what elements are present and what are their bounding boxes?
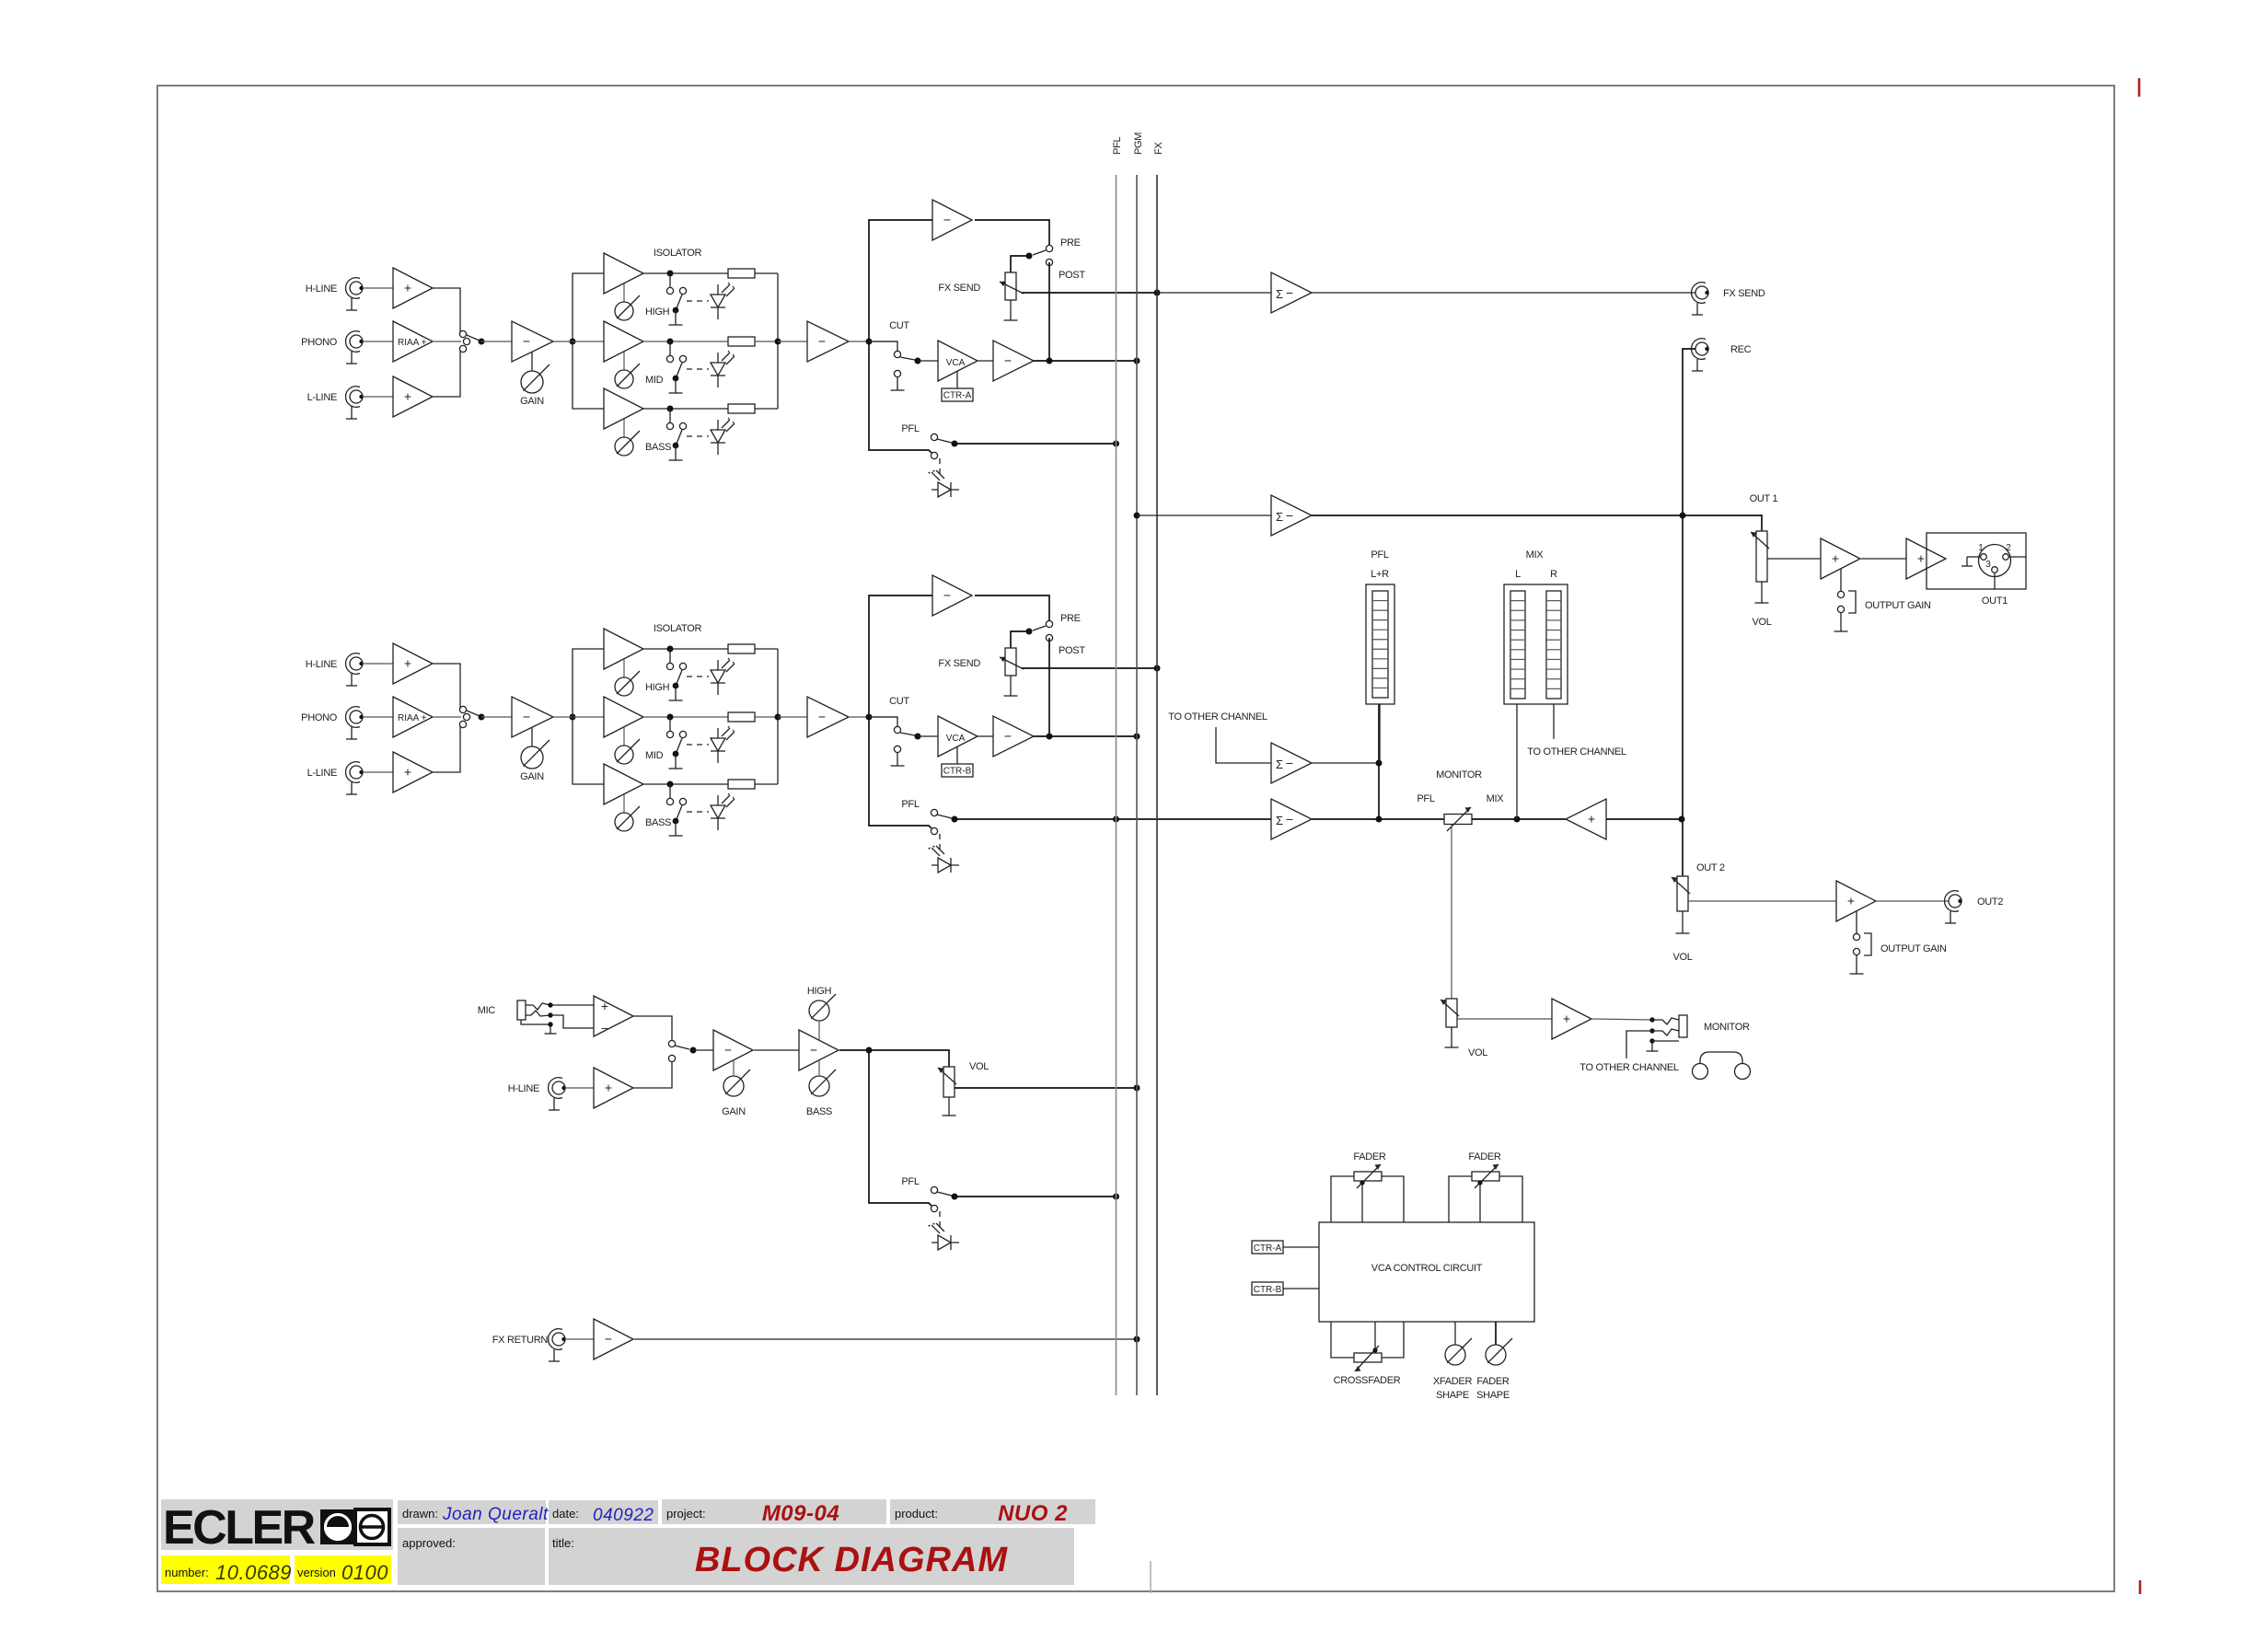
node pfl sumB out (1376, 816, 1383, 823)
wire band out MID ch@371 (643, 341, 728, 342)
wire POST to vca out ch@779 (1048, 638, 1050, 736)
wire dashed PFL led ch@779 (939, 834, 941, 854)
wire VCA out ch@371 (978, 360, 993, 362)
label POST ch@779 (1059, 645, 1085, 656)
wire resistor out BASS ch@779 (755, 783, 778, 785)
label REC (1730, 344, 1752, 355)
node band out BASS ch@779 (667, 781, 674, 788)
svg-text:title:: title: (552, 1536, 574, 1550)
label MID ch@779 (645, 750, 664, 761)
wire dashed to led BASS ch@779 (687, 811, 709, 813)
svg-text:BASS: BASS (806, 1106, 832, 1117)
node isolator join ch@779 (775, 714, 781, 721)
label monitor PFL side (1417, 793, 1434, 804)
wire to PGM bus ch@779 (1034, 735, 1137, 737)
svg-text:RIAA +: RIAA + (398, 713, 427, 723)
svg-text:−: − (523, 334, 530, 349)
svg-text:FX SEND: FX SEND (1723, 288, 1765, 299)
wire fader1 wiper (1360, 1180, 1364, 1222)
label FX SEND ch@371 (938, 283, 980, 294)
wire FX sum to output (1312, 292, 1695, 294)
node mic PFL bus tap (1113, 1194, 1119, 1200)
node FX bus tap ch@371 (1154, 290, 1161, 296)
node CTR-B box ch@779 (942, 764, 973, 777)
wire PGM bus (1136, 175, 1138, 1395)
wire resistor out MID ch@371 (755, 341, 778, 342)
node CTR-A box (1252, 1241, 1283, 1254)
resistor isolator MID ch@371 (728, 337, 755, 346)
op-amp OUT1 sum (1271, 495, 1312, 536)
wire band out HIGH ch@779 (643, 648, 728, 650)
wire other channel to pfl sum (1216, 727, 1271, 763)
node isolator join ch@371 (775, 339, 781, 345)
svg-text:number:: number: (165, 1566, 209, 1579)
wire band out HIGH ch@371 (643, 272, 728, 274)
svg-text:OUTPUT GAIN: OUTPUT GAIN (1865, 600, 1931, 611)
pot BASS ch@371 (615, 431, 640, 456)
node CTR-A box ch@371 (942, 388, 973, 401)
wire CTR-B to box (1283, 1288, 1319, 1289)
wire crossfader wiper (1372, 1322, 1377, 1353)
svg-text:−: − (1004, 353, 1012, 368)
label FADER 1 (1353, 1151, 1386, 1162)
connector H-LINE jack ch@371 (346, 278, 364, 310)
node mic vol PGM tap (1134, 1085, 1140, 1092)
label TO OTHER CHANNEL top (1168, 711, 1267, 723)
wire PHONO to amp ch@371 (363, 341, 393, 342)
svg-text:FADER: FADER (1476, 1376, 1510, 1387)
svg-text:+: + (1832, 551, 1839, 566)
svg-text:FX: FX (1153, 142, 1164, 155)
value NUO 2 (998, 1501, 1068, 1526)
wire mic to PFL switch (869, 1050, 931, 1206)
pot MID ch@371 (615, 364, 640, 388)
svg-text:HIGH: HIGH (645, 306, 670, 318)
label OUT1 xlr (1982, 596, 2008, 607)
wire fx return to amp (565, 1338, 594, 1340)
wire band out BASS ch@779 (643, 783, 728, 785)
logo ECLER emblem (320, 1509, 389, 1544)
op-amp FX RETURN (594, 1319, 633, 1359)
label meter MIX (1526, 549, 1545, 561)
label MIC (478, 1005, 496, 1016)
wire fader2 left (1449, 1176, 1472, 1222)
switch mic PFL (931, 1186, 952, 1211)
svg-text:MIX: MIX (1487, 793, 1505, 804)
svg-text:3: 3 (1985, 560, 1991, 570)
switch PFL ch@779 (931, 809, 952, 834)
wire fx pot ground ch@371 (1004, 300, 1018, 320)
op-amp FX sum (1271, 272, 1312, 313)
node mix meter tap (1514, 816, 1521, 823)
wire out2 to connector (1877, 900, 1949, 902)
svg-text:+: + (404, 656, 411, 671)
fader OUT1 VOL (1751, 531, 1769, 582)
led MID ch@371 (711, 351, 735, 388)
label FADER SHAPE (1476, 1376, 1510, 1401)
svg-text:Σ: Σ (1276, 757, 1283, 771)
svg-text:CTR-B: CTR-B (1254, 1285, 1282, 1295)
wire mic to vol fader (839, 1050, 949, 1067)
label PHONO ch@779 (301, 712, 338, 723)
wire PFL to bus ch@371 (955, 443, 1117, 445)
label XFADER SHAPE (1433, 1376, 1473, 1401)
wire fx amp out ch@779 (975, 596, 1049, 620)
svg-text:OUTPUT GAIN: OUTPUT GAIN (1880, 943, 1947, 954)
svg-text:L: L (1515, 569, 1521, 580)
svg-text:−: − (523, 710, 530, 724)
label GAIN ch@779 (520, 771, 544, 782)
pot GAIN ch@779 (521, 727, 550, 769)
label PFL ch@779 (901, 799, 919, 810)
node fx return PGM tap (1134, 1336, 1140, 1343)
svg-text:VOL: VOL (969, 1061, 989, 1072)
label OUT2 (1977, 896, 2003, 908)
wire amp to pot HIGH ch@371 (623, 283, 625, 302)
label MONITOR jack (1704, 1022, 1750, 1033)
drawing border frame (157, 86, 2114, 1591)
svg-text:ISOLATOR: ISOLATOR (654, 248, 702, 259)
svg-text:CUT: CUT (889, 696, 909, 707)
svg-text:PFL: PFL (1112, 137, 1123, 155)
label PGM bus (1133, 133, 1144, 155)
wire pfl meter link (1378, 704, 1380, 819)
node input select out ch@779 (479, 714, 485, 721)
label CUT ch@371 (889, 320, 909, 331)
label out2 VOL (1672, 952, 1692, 963)
wire to VCA ch@371 (918, 360, 938, 362)
wire out1 junction down (1682, 515, 1684, 876)
label L-LINE ch@779 (307, 768, 337, 779)
svg-text:+: + (404, 765, 411, 780)
wire mic PFL to bus (955, 1196, 1117, 1197)
resistor isolator MID ch@779 (728, 712, 755, 722)
svg-text:PRE: PRE (1060, 613, 1081, 624)
op-amp output inverter ch@779 (993, 716, 1034, 757)
node main ch@779 (866, 714, 873, 721)
op-amp VCA ch@779 (938, 716, 978, 757)
wire mix R meter down (1553, 704, 1555, 739)
red registration tick top right (2138, 78, 2141, 97)
led BASS ch@779 (711, 793, 735, 831)
svg-text:version: version (297, 1566, 336, 1579)
svg-text:TO OTHER CHANNEL: TO OTHER CHANNEL (1579, 1062, 1679, 1073)
connector XLR OUT1 (1927, 533, 2026, 589)
led BASS ch@371 (711, 418, 735, 456)
connector H-LINE mic jack (549, 1078, 566, 1110)
svg-text:POST: POST (1059, 270, 1085, 281)
label MID ch@371 (645, 375, 664, 386)
wire H-LINE amp out ch@779 (433, 664, 460, 708)
node mic select out (690, 1047, 697, 1054)
label POST ch@371 (1059, 270, 1085, 281)
svg-text:VCA CONTROL CIRCUIT: VCA CONTROL CIRCUIT (1371, 1263, 1483, 1274)
wire to post amp ch@371 (778, 341, 807, 342)
connector OUT2 (1945, 891, 1962, 923)
svg-text:CUT: CUT (889, 320, 909, 331)
wire post amp out ch@371 (849, 341, 897, 342)
titleblock title cell (549, 1528, 1074, 1585)
wire mic fader ground (943, 1097, 956, 1116)
meter MIX L R (1504, 584, 1568, 704)
label meter L+R (1371, 569, 1389, 580)
op-amp H-LINE buffer ch@371 (393, 268, 433, 308)
wire L-LINE amp out ch@371 (433, 351, 460, 397)
wire L-LINE to amp ch@779 (363, 771, 393, 773)
wire dashed to led BASS ch@371 (687, 435, 709, 437)
wire H-LINE to amp ch@779 (363, 663, 393, 665)
label FADER 2 (1468, 1151, 1501, 1162)
svg-text:−: − (818, 334, 826, 349)
connector MONITOR jack (1647, 1015, 1688, 1051)
wire xfader shape (1454, 1322, 1456, 1345)
node band out MID ch@779 (667, 714, 674, 721)
op-amp PFL sum A (1271, 743, 1312, 783)
label PRE ch@371 (1060, 237, 1081, 249)
wire out1 sum to fader (1312, 515, 1762, 531)
switch PRE/POST ch@371 (1026, 245, 1053, 265)
node after gain ch@779 (570, 714, 576, 721)
svg-text:MID: MID (645, 750, 664, 761)
svg-text:NUO 2: NUO 2 (998, 1501, 1068, 1526)
label PRE ch@779 (1060, 613, 1081, 624)
svg-text:project:: project: (666, 1507, 706, 1521)
op-amp L-LINE buffer ch@779 (393, 752, 433, 792)
node pfl sumA out (1376, 760, 1383, 767)
svg-text:Joan Queralt: Joan Queralt (442, 1505, 549, 1524)
svg-text:Σ: Σ (1276, 510, 1283, 524)
op-amp isolator HIGH ch@779 (604, 629, 643, 669)
wire PFL to bus ch@779 (955, 818, 1271, 820)
wire PFL bus (1116, 175, 1117, 1395)
svg-text:BASS: BASS (645, 442, 671, 453)
node PFL out ch@779 (952, 816, 958, 823)
svg-text:−: − (605, 1332, 612, 1347)
label HIGH ch@371 (645, 306, 670, 318)
op-amp out2 gain (1836, 881, 1876, 921)
switch kill HIGH ch@779 (666, 649, 686, 700)
op-amp fx send ch@371 (932, 200, 972, 240)
label GAIN ch@371 (520, 396, 544, 407)
resistor isolator HIGH ch@779 (728, 644, 755, 653)
wire PGM to out1 sum (1137, 515, 1271, 516)
led HIGH ch@779 (711, 658, 735, 696)
label mic GAIN (722, 1106, 746, 1117)
svg-text:CTR-B: CTR-B (943, 767, 972, 777)
svg-text:HIGH: HIGH (807, 986, 832, 997)
resistor isolator BASS ch@371 (728, 404, 755, 413)
node post vca junction ch@371 (1047, 358, 1053, 364)
svg-text:−: − (943, 213, 951, 227)
svg-text:H-LINE: H-LINE (508, 1083, 539, 1094)
label approved (402, 1536, 456, 1550)
wire fx wiper to FX bus ch@779 (1022, 667, 1157, 669)
wire fader1 right (1382, 1176, 1404, 1222)
svg-text:PRE: PRE (1060, 237, 1081, 249)
svg-text:+: + (1563, 1012, 1570, 1026)
wire hline mic to amp (565, 1087, 594, 1089)
svg-text:−: − (1004, 729, 1012, 744)
wire crossfader left (1331, 1322, 1354, 1358)
wire isolator split ch@779 (573, 649, 604, 784)
value Joan Queralt (442, 1505, 549, 1524)
wire to post amp ch@779 (778, 716, 807, 718)
label H-LINE ch@371 (306, 283, 337, 295)
label MONITOR pot (1436, 769, 1482, 781)
titleblock drawn cell (398, 1500, 546, 1524)
node CUT out ch@779 (915, 734, 921, 740)
op-amp out1 driver (1906, 538, 1946, 579)
connector PHONO jack ch@371 (346, 331, 364, 364)
box VCA CONTROL CIRCUIT (1319, 1222, 1534, 1322)
wire PHONO amp out ch@371 (433, 341, 461, 342)
wire mix to monitor pot (1472, 818, 1566, 820)
svg-text:L-LINE: L-LINE (307, 392, 337, 403)
svg-text:−: − (1286, 812, 1293, 827)
svg-text:drawn:: drawn: (402, 1507, 438, 1521)
svg-text:−: − (810, 1043, 817, 1058)
svg-text:Σ: Σ (1276, 287, 1283, 301)
wire fx amp out ch@371 (975, 220, 1049, 245)
wire to gain amp ch@371 (481, 341, 512, 342)
op-amp fx send ch@779 (932, 575, 972, 616)
wire isolator join ch@779 (777, 649, 779, 784)
wire fx return to PGM bus (634, 1338, 1137, 1340)
node out1 junction (1680, 513, 1686, 519)
titleblock number cell (161, 1555, 290, 1584)
resistor isolator BASS ch@779 (728, 780, 755, 789)
value M09-04 (762, 1501, 839, 1526)
pot FX SEND fader ch@371 (1000, 272, 1024, 300)
svg-text:H-LINE: H-LINE (306, 659, 337, 670)
op-amp gain stage ch@779 (512, 697, 553, 737)
pot FADER SHAPE (1486, 1338, 1512, 1365)
value 10.0689 (215, 1561, 292, 1584)
svg-text:MIC: MIC (478, 1005, 496, 1016)
wire mic amp out (633, 1016, 672, 1041)
svg-text:M09-04: M09-04 (762, 1501, 839, 1526)
wire isolator join ch@371 (777, 273, 779, 409)
svg-text:1: 1 (1978, 543, 1984, 553)
svg-text:VCA: VCA (946, 734, 966, 744)
label TO OTHER CHANNEL monitor (1579, 1062, 1679, 1073)
icon headphones (1693, 1052, 1751, 1080)
svg-text:−: − (1286, 285, 1293, 300)
node mic PFL out (952, 1194, 958, 1200)
wire resistor out HIGH ch@779 (755, 648, 778, 650)
wire mix meter link (1516, 704, 1518, 819)
op-amp PFL sum B (1271, 799, 1312, 839)
svg-text:R: R (1550, 569, 1557, 580)
svg-text:REC: REC (1730, 344, 1752, 355)
svg-text:FADER: FADER (1353, 1151, 1386, 1162)
connector MIC jack (517, 1000, 557, 1034)
meter PFL L+R (1366, 584, 1394, 704)
connector PHONO jack ch@779 (346, 707, 364, 739)
wire band out MID ch@779 (643, 716, 728, 718)
pot BASS ch@779 (615, 806, 640, 831)
node PFL bus tap ch@779 (1113, 816, 1119, 823)
label OUTPUT GAIN out2 (1880, 943, 1947, 954)
connector L-LINE jack ch@371 (346, 387, 364, 419)
label mic BASS (806, 1106, 832, 1117)
svg-text:PGM: PGM (1133, 133, 1144, 155)
switch kill BASS ch@779 (666, 784, 686, 836)
label BASS ch@371 (645, 442, 671, 453)
op-amp isolator BASS ch@779 (604, 764, 643, 804)
op-amp isolator BASS ch@371 (604, 388, 643, 429)
svg-text:10.0689: 10.0689 (215, 1561, 292, 1584)
svg-text:L-LINE: L-LINE (307, 768, 337, 779)
label ISOLATOR ch@779 (654, 623, 702, 634)
svg-text:MID: MID (645, 375, 664, 386)
resistor isolator HIGH ch@371 (728, 269, 755, 278)
svg-text:GAIN: GAIN (722, 1106, 746, 1117)
svg-text:−: − (601, 1021, 608, 1035)
titleblock project cell (662, 1499, 886, 1524)
switch OUTPUT GAIN out1 (1834, 569, 1857, 631)
pot CROSSFADER (1354, 1346, 1382, 1371)
svg-text:+: + (1917, 551, 1925, 566)
op-amp gain stage ch@371 (512, 321, 553, 362)
op-amp mix buffer (1566, 799, 1606, 839)
svg-text:approved:: approved: (402, 1536, 456, 1550)
wire fader1 left (1331, 1176, 1354, 1222)
svg-text:MONITOR: MONITOR (1704, 1022, 1750, 1033)
label BASS ch@779 (645, 817, 671, 828)
node PGM out1 tap (1134, 513, 1140, 519)
pot GAIN ch@371 (521, 352, 550, 393)
label product (895, 1507, 938, 1521)
wire fx pot ground ch@779 (1004, 676, 1018, 696)
wire dashed to led MID ch@779 (687, 744, 709, 746)
wire out1 fader ground (1755, 582, 1769, 603)
switch CUT ch@371 (869, 341, 915, 390)
switch kill MID ch@371 (666, 341, 686, 393)
label PFL ch@371 (901, 423, 919, 434)
svg-text:FX RETURN: FX RETURN (492, 1335, 549, 1346)
label mic HIGH (807, 986, 832, 997)
node PGM bus tap ch@779 (1134, 734, 1140, 740)
svg-text:+: + (1588, 812, 1595, 827)
op-amp post isolator ch@371 (807, 321, 849, 362)
svg-text:040922: 040922 (593, 1506, 654, 1525)
svg-text:product:: product: (895, 1507, 938, 1521)
svg-text:VOL: VOL (1752, 617, 1771, 628)
node CTR-B box (1252, 1282, 1283, 1295)
fader mic VOL (938, 1067, 956, 1097)
svg-text:GAIN: GAIN (520, 771, 544, 782)
svg-text:PHONO: PHONO (301, 337, 338, 348)
svg-text:VOL: VOL (1672, 952, 1692, 963)
node CUT out ch@371 (915, 358, 921, 364)
label mic PFL (901, 1176, 919, 1187)
svg-text:FX SEND: FX SEND (938, 658, 980, 669)
pot HIGH ch@371 (615, 295, 640, 320)
wire PHONO to amp ch@779 (363, 716, 393, 718)
wire MIC tip contact (526, 1002, 594, 1010)
wire to fx amp ch@779 (869, 596, 932, 717)
label title (552, 1536, 574, 1550)
label monitor VOL (1468, 1047, 1487, 1058)
label FX RETURN (492, 1335, 549, 1346)
svg-text:CROSSFADER: CROSSFADER (1334, 1375, 1401, 1386)
svg-text:−: − (818, 710, 826, 724)
wire REC branch (1683, 349, 1695, 515)
node band out HIGH ch@779 (667, 646, 674, 653)
svg-text:OUT 2: OUT 2 (1696, 862, 1725, 873)
svg-text:PFL: PFL (901, 799, 919, 810)
